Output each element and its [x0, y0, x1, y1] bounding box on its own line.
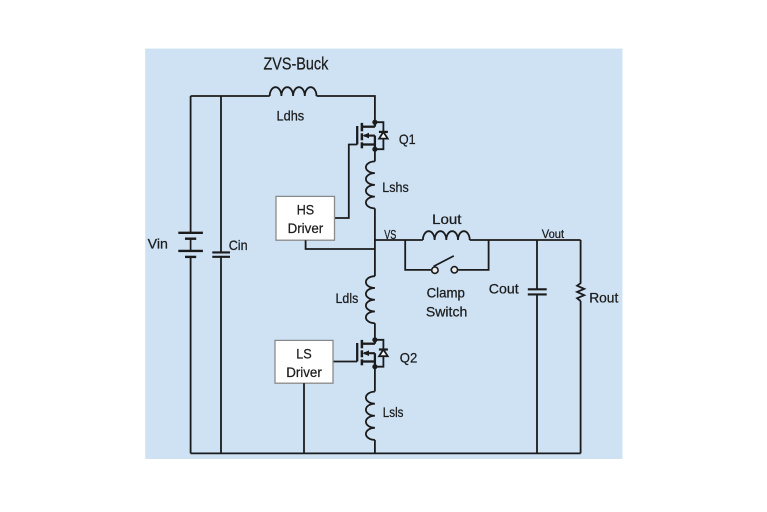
body diode of Q2	[375, 340, 384, 350]
wire Cout top lead	[536, 240, 538, 289]
clamp switch across Lout	[405, 240, 488, 273]
wire bottom rail	[191, 452, 581, 454]
wire Lshs to VS junction	[374, 208, 376, 240]
body diode of Q1	[375, 122, 384, 132]
svg-text:Vin: Vin	[148, 236, 168, 252]
svg-text:Rout: Rout	[589, 289, 618, 305]
wire Q2 source to Lsls	[374, 367, 376, 392]
wire Cin branch bottom	[220, 257, 222, 454]
wire HS driver reference to VS	[306, 240, 375, 249]
svg-text:ZVS-Buck: ZVS-Buck	[264, 54, 329, 74]
capacitor Cin	[212, 252, 230, 256]
svg-text:Q1: Q1	[399, 131, 416, 147]
wire top rail right segment to Q1 drain	[317, 96, 375, 122]
wire Q1 source to Lshs	[374, 149, 376, 161]
wire Ldls to Q2 drain	[374, 323, 376, 340]
inductor Ldhs	[270, 87, 317, 96]
svg-text:LS: LS	[296, 346, 312, 362]
wire Vin branch bottom	[190, 257, 192, 454]
battery Vin	[178, 233, 203, 257]
inductor Lsls	[366, 392, 375, 440]
LS Driver box U-LS	[275, 340, 333, 383]
svg-text:Ldls: Ldls	[336, 290, 359, 306]
inductor Lshs	[366, 161, 375, 208]
svg-text:HS: HS	[297, 202, 314, 218]
wire Vout rail	[470, 239, 581, 241]
inductor Ldls	[366, 276, 375, 323]
svg-text:Q2: Q2	[400, 349, 418, 365]
wire Vin branch top	[190, 96, 192, 233]
wire Q1 gate lead	[335, 145, 358, 219]
svg-text:Vout: Vout	[542, 227, 565, 241]
svg-text:Clamp: Clamp	[427, 285, 465, 301]
wire Cin branch top	[220, 96, 222, 252]
wire Rout bottom lead	[580, 301, 582, 453]
wire LS driver reference to ground rail	[303, 383, 305, 453]
wire Cout bottom lead	[536, 294, 538, 453]
wire VS to Ldls	[374, 240, 376, 276]
svg-text:Driver: Driver	[288, 220, 324, 236]
wire Rout top lead	[580, 240, 582, 284]
transistor Q1 (N-MOSFET with body diode)	[357, 120, 388, 152]
svg-text:Lshs: Lshs	[382, 179, 408, 195]
svg-text:Switch: Switch	[426, 304, 467, 320]
wire top rail left segment	[191, 95, 270, 97]
svg-text:Lsls: Lsls	[383, 404, 404, 420]
svg-text:Driver: Driver	[286, 364, 322, 380]
inductor Lout	[423, 231, 470, 240]
svg-text:Lout: Lout	[432, 211, 461, 227]
wire VS horizontal to Lout	[375, 239, 423, 241]
svg-text:Cin: Cin	[229, 237, 248, 253]
HS Driver box U-HS	[276, 196, 335, 240]
svg-text:Cout: Cout	[489, 281, 519, 297]
capacitor Cout	[528, 289, 547, 294]
svg-text:Ldhs: Ldhs	[277, 107, 305, 123]
transistor Q2 (N-MOSFET with body diode)	[357, 337, 388, 369]
wire Q2 gate lead	[333, 361, 357, 363]
resistor Rout	[577, 283, 584, 301]
wire Lsls to bottom rail	[374, 440, 376, 454]
